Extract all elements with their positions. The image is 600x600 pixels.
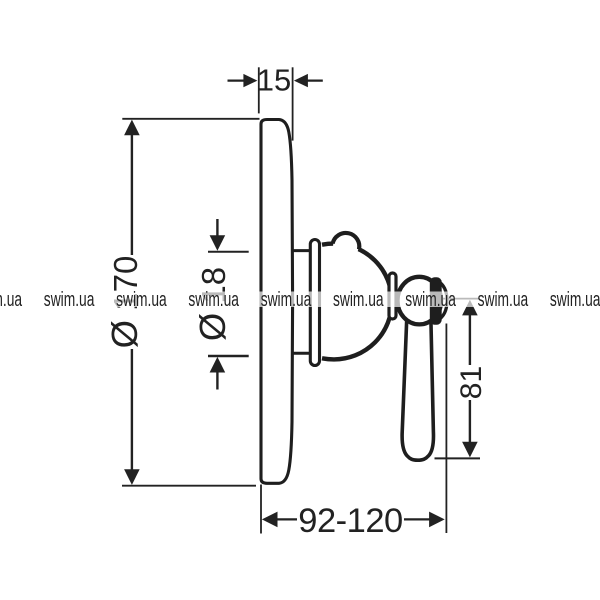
svg-text:swim.ua: swim.ua [44, 287, 95, 310]
svg-text:15: 15 [257, 62, 291, 97]
svg-text:swim.ua: swim.ua [478, 287, 529, 310]
svg-text:swim.ua: swim.ua [188, 287, 239, 310]
svg-text:swim.ua: swim.ua [333, 287, 384, 310]
svg-text:swim.ua: swim.ua [116, 287, 167, 310]
svg-text:swim.ua: swim.ua [405, 287, 456, 310]
svg-text:swim.ua: swim.ua [550, 287, 600, 310]
svg-text:swim.ua: swim.ua [0, 287, 22, 310]
svg-text:81: 81 [455, 366, 488, 399]
svg-text:swim.ua: swim.ua [261, 287, 312, 310]
svg-text:92-120: 92-120 [298, 502, 402, 540]
